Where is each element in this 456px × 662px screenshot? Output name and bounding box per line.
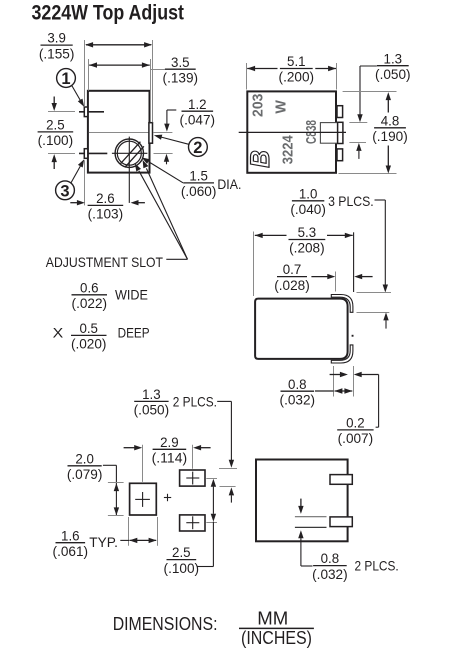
side view midline [239,131,346,133]
svg-text:(.050): (.050) [134,402,170,418]
svg-text:203: 203 [249,94,266,117]
land pattern: right top pad [180,470,205,486]
standoff lines [295,516,327,518]
dim 2.6/(.103) bottom [84,160,86,205]
bottom terminal tab [337,149,343,161]
adjustment screw outer circle [115,139,143,167]
svg-text:2: 2 [193,139,202,157]
svg-text:2.6: 2.6 [96,190,115,206]
svg-text:(.103): (.103) [88,206,124,222]
svg-text:(.050): (.050) [375,66,411,82]
wiper contact box [320,123,337,144]
svg-text:3224W Top Adjust: 3224W Top Adjust [32,2,185,25]
dim 0.8/(.032) 2 PLCS standoff [300,499,302,506]
svg-text:(.040): (.040) [290,201,326,217]
svg-text:MM: MM [257,608,288,629]
circled pin number 3 [56,181,75,200]
svg-text:0.5: 0.5 [79,320,98,336]
svg-text:(.208): (.208) [289,240,325,256]
svg-text:(.100): (.100) [164,560,200,576]
dim 2.9/(.114) pad spacing [142,445,144,482]
dim 5.1/(.200) top [246,63,248,90]
svg-text:3 PLCS.: 3 PLCS. [328,193,374,209]
svg-text:(.060): (.060) [181,183,217,199]
svg-text:1.3: 1.3 [384,50,403,66]
svg-text:(.061): (.061) [53,543,89,559]
svg-text:(INCHES): (INCHES) [241,627,312,648]
svg-text:3224: 3224 [279,135,296,165]
svg-text:2.5: 2.5 [172,544,191,560]
svg-text:WIDE: WIDE [115,286,148,302]
svg-text:DEEP: DEEP [118,324,150,340]
side view: body outline [247,91,336,172]
svg-text:1.3: 1.3 [142,386,161,402]
svg-text:5.3: 5.3 [298,224,317,240]
dim 3.5/(.139) top [88,59,90,91]
dim 2.0/(.079) pad height left [103,464,117,466]
svg-text:ADJUSTMENT SLOT: ADJUSTMENT SLOT [46,254,164,270]
pin 3 tab [84,149,88,159]
svg-text:5.1: 5.1 [287,53,306,69]
screw horizontal crosshair [112,152,147,154]
svg-text:2.0: 2.0 [75,450,94,466]
dim 1.3/(.050) contact width [360,65,377,67]
svg-text:(.032): (.032) [312,566,348,582]
svg-text:2.9: 2.9 [160,434,179,450]
pin 1 tab [84,107,88,117]
svg-text:3: 3 [60,182,69,200]
svg-text:3.5: 3.5 [171,54,190,70]
dim 2.5/(.100) right pad spacing [206,478,217,480]
adjustment slot leader lines [166,258,187,260]
screw vertical centerline [128,137,130,203]
svg-text:0.8: 0.8 [321,550,340,566]
svg-text:B: B [245,150,275,168]
dim 1.5/(.060) DIA. screw diameter [149,162,183,183]
svg-text:(.028): (.028) [274,277,310,293]
bottom view: body outline [256,460,348,542]
bottom view top tab [330,475,352,485]
svg-text:(.020): (.020) [71,336,107,352]
svg-text:(.022): (.022) [72,295,108,311]
svg-text:1.6: 1.6 [61,527,80,543]
svg-text:1.0: 1.0 [299,185,318,201]
svg-text:2 PLCS.: 2 PLCS. [355,558,399,574]
adjustment slot lines [121,142,141,164]
svg-text:DIA.: DIA. [217,176,241,192]
dim 5.3/(.208) [253,232,255,297]
svg-text:X: X [53,324,64,340]
svg-text:TYP.: TYP. [89,534,118,550]
svg-text:2 PLCS.: 2 PLCS. [173,394,217,410]
dim 0.8/(.032) lead width [333,366,335,397]
middle terminal tab [338,122,343,143]
bottom view lower tab [330,517,352,527]
dim 4.8/(.190) height [343,91,397,93]
svg-text:1.5: 1.5 [189,168,208,184]
svg-text:(.139): (.139) [163,69,199,85]
svg-text:W: W [272,99,289,113]
svg-text:0.8: 0.8 [288,376,307,392]
lead detail: body outline [255,299,348,359]
lead break dot [352,335,354,337]
top lead band [331,295,353,313]
svg-text:(.200): (.200) [279,69,315,85]
svg-text:DIMENSIONS:: DIMENSIONS: [113,613,218,634]
dim 1.2/(.047) right [167,109,176,111]
land pattern: right bottom pad [180,515,205,531]
circled pin number 2 [189,138,208,157]
center reference cross [164,497,171,499]
land pattern: left pad [130,483,157,515]
svg-text:(.032): (.032) [280,391,316,407]
top terminal tab [337,106,343,118]
svg-text:(.114): (.114) [152,450,188,466]
svg-text:(.079): (.079) [67,466,103,482]
svg-text:(.155): (.155) [39,45,75,61]
svg-text:0.7: 0.7 [283,261,302,277]
pin 1 stub line [79,111,104,113]
pin 2 tab [149,123,153,144]
bottom lead band [331,345,353,363]
svg-text:2.5: 2.5 [46,117,65,133]
svg-text:(.100): (.100) [38,132,74,148]
svg-text:(.190): (.190) [372,128,408,144]
svg-text:(.047): (.047) [180,111,216,127]
body midline [89,132,150,134]
svg-text:1: 1 [61,70,70,88]
svg-text:3.9: 3.9 [47,30,66,46]
top view: trimmer body outline [88,91,150,173]
circled pin number 1 [57,69,76,88]
dim 0.2/(.007) lead thickness [330,374,341,376]
left pad crosshair [135,498,150,500]
dim 3.9/(.155) top [84,40,86,107]
svg-text:(.007): (.007) [338,430,374,446]
pin 3 stub line [79,152,107,154]
dim 1.6/(.061) TYP pad width [128,517,130,546]
svg-text:1.2: 1.2 [188,96,207,112]
svg-text:4.8: 4.8 [381,112,400,128]
svg-text:0.6: 0.6 [80,279,99,295]
dim 2.5/(.100) left [48,111,75,113]
svg-text:0.2: 0.2 [346,415,365,431]
adjustment screw inner circle [117,141,141,165]
